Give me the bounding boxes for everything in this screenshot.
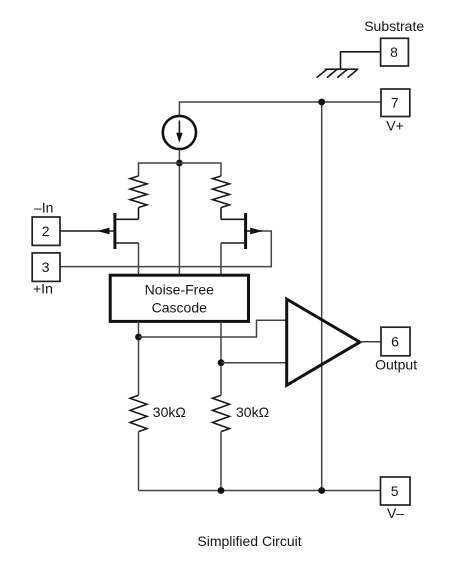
svg-text:–In: –In: [34, 199, 53, 215]
pin box 8: [381, 38, 409, 66]
resistor R4 (lower right 30k): [213, 395, 230, 431]
wire amp output to pin 6: [360, 341, 381, 343]
wire right node to amp lower input: [221, 362, 286, 364]
svg-text:V+: V+: [386, 118, 404, 134]
pin box 5: [381, 477, 411, 505]
resistor R3 (lower left 30k): [130, 395, 147, 431]
svg-text:30kΩ: 30kΩ: [236, 404, 269, 420]
svg-text:Noise-Free: Noise-Free: [145, 282, 214, 298]
svg-text:30kΩ: 30kΩ: [153, 404, 186, 420]
wire R4 to bottom rail: [220, 432, 222, 491]
node V+ junction: [318, 99, 325, 106]
svg-text:Cascode: Cascode: [152, 300, 207, 316]
op-amp output stage U1: [287, 299, 360, 385]
wire R1 to Q1 drain: [138, 208, 140, 220]
svg-text:2: 2: [42, 223, 50, 239]
svg-text:8: 8: [390, 44, 398, 60]
wire substrate pin 8 to ground: [341, 52, 381, 69]
resistor R2 (upper right): [213, 176, 230, 208]
wire pin 3 to Q2 gate: [60, 231, 271, 267]
transistor Q2 (right JFET): [221, 213, 262, 249]
svg-text:+In: +In: [33, 281, 53, 297]
wire V+ rail vertical: [321, 102, 323, 491]
wire pin 2 to Q1 gate: [60, 230, 98, 232]
transistor Q1 (left JFET): [97, 213, 138, 249]
wire right column below cascode: [220, 321, 222, 395]
ground (chassis): [317, 69, 359, 78]
wire V+ node to pin 7: [322, 101, 381, 103]
current source I1: [163, 116, 196, 149]
wire branch left to R1: [139, 163, 180, 176]
wire left node to amp upper input: [139, 320, 286, 337]
wire left column below cascode to bottom rail: [138, 321, 140, 395]
pin box 7: [381, 89, 410, 117]
wire current source to junction and middle tail to cascode: [178, 149, 180, 275]
wire Q2 source to cascode: [220, 243, 222, 275]
svg-text:V–: V–: [387, 505, 404, 521]
pin box 6: [381, 327, 410, 356]
svg-text:Output: Output: [375, 357, 417, 373]
cascode block: [110, 275, 248, 321]
wire R2 to Q2 drain: [220, 208, 222, 220]
wire bottom rail to pin 5: [139, 490, 381, 492]
svg-text:7: 7: [391, 95, 399, 111]
svg-text:3: 3: [42, 259, 50, 275]
node right column tap: [218, 359, 225, 366]
wire Q1 source to cascode: [138, 243, 140, 275]
node bottom rail V+ rail: [318, 487, 325, 494]
svg-text:Simplified Circuit: Simplified Circuit: [197, 533, 301, 549]
svg-text:5: 5: [391, 483, 399, 499]
node bottom rail R4: [218, 487, 225, 494]
wire R3 to bottom rail: [138, 432, 140, 491]
svg-text:6: 6: [391, 334, 399, 350]
pin box 2: [32, 217, 60, 245]
svg-text:Substrate: Substrate: [364, 18, 424, 34]
node tail junction: [176, 160, 183, 167]
node below cascode left: [135, 334, 142, 341]
wire branch right to R2: [179, 163, 221, 176]
wire top rail from current source to V+ node: [179, 102, 321, 115]
resistor R1 (upper left): [130, 176, 147, 208]
pin box 3: [32, 253, 60, 282]
